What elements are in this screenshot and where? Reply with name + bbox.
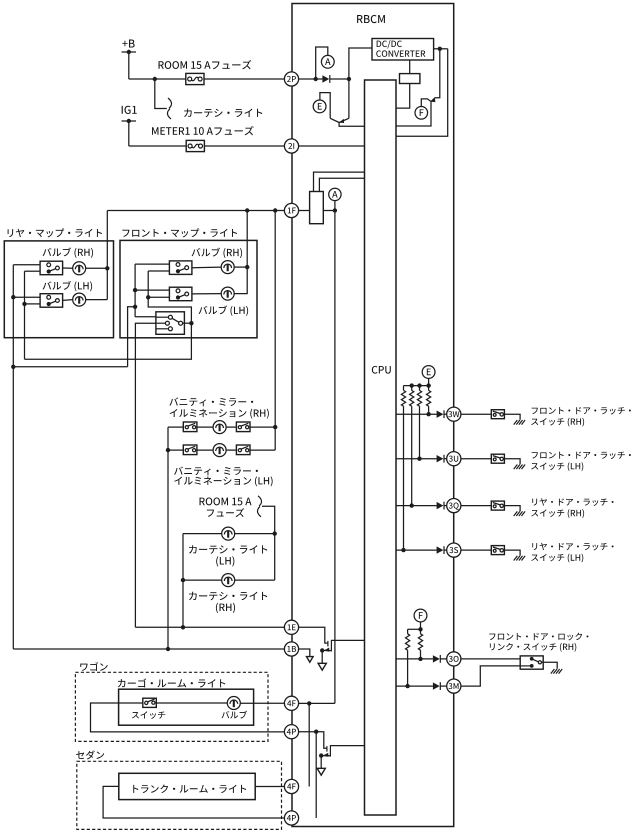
resistor R2 vertical <box>310 192 324 224</box>
door latch switch 3S <box>491 546 504 555</box>
bus E resistors <box>404 385 429 387</box>
net label F at CPU <box>414 609 427 622</box>
wire 3U to latch switch <box>461 458 491 460</box>
bulb courtesy LH <box>222 527 235 540</box>
label METER1 fuse <box>152 126 254 135</box>
bulb vanity LH <box>213 444 226 457</box>
wire bus to 3pos switch top <box>135 316 156 318</box>
bulb vanity RH <box>213 421 226 434</box>
diode D1 <box>322 75 329 82</box>
label courtesy RH <box>189 592 267 600</box>
label fuse 2 <box>207 508 244 517</box>
wire 1E row <box>135 626 284 628</box>
node IG1 <box>122 106 137 114</box>
wire down to rear map lamps <box>106 211 108 269</box>
bulb courtesy RH <box>222 574 235 587</box>
wire bulb to 4F <box>240 702 284 704</box>
MOSFET Q4 <box>326 746 328 752</box>
wire switch to ground 3W <box>504 414 520 420</box>
wire 3W to latch switch <box>461 413 491 415</box>
diode 3U <box>437 455 444 462</box>
resistor RE4 <box>428 386 430 391</box>
wire switch left to 4P <box>91 703 285 732</box>
resistor RF1 <box>407 629 409 634</box>
diode 3M <box>433 682 440 689</box>
label 3S line1 <box>532 543 613 551</box>
transistor Q1 emitter to CPU <box>339 123 364 127</box>
wire switch to ground 3U <box>504 459 520 465</box>
wire 2I to CPU <box>299 145 365 147</box>
ground 3S <box>514 556 518 561</box>
bulb front RH <box>221 261 234 274</box>
label bulb LH front <box>199 305 249 315</box>
ground 3U <box>514 465 518 470</box>
wire courtesy LH row <box>183 533 222 535</box>
label courtesy light <box>184 109 262 117</box>
connector 3M <box>447 679 461 693</box>
wire IG1 down <box>128 121 130 146</box>
wire bus to LH switch <box>13 296 40 298</box>
3pos right terminal <box>183 322 192 324</box>
label ROOM 15A fuse <box>159 60 252 69</box>
wire switch to bulb <box>192 266 221 269</box>
wire courtesy RH row <box>183 579 222 581</box>
wire resistor R1 to CPU <box>396 84 410 109</box>
resistor RF2 <box>420 629 422 634</box>
resistor R1 under DC/DC <box>400 74 420 84</box>
label 3Q line2 <box>531 509 584 518</box>
wire switch to bulb <box>156 702 227 704</box>
vanity left bus down to 1B <box>167 427 169 649</box>
ground 1B <box>307 657 314 663</box>
bus left 2 down <box>24 271 26 359</box>
transistor Q2 collector wire <box>431 49 440 102</box>
wire switch to bulb LH <box>63 299 73 302</box>
wires to front RH switch <box>135 263 169 265</box>
wire switch to ground 3S <box>504 550 520 556</box>
wire bulb LH right <box>86 299 108 301</box>
wire IG1 to fuse <box>129 145 186 147</box>
wire 3M to lock switch <box>461 666 520 686</box>
net label A at 1F <box>334 201 336 211</box>
RBCM module box <box>292 4 454 827</box>
switch rear LH <box>40 294 63 308</box>
label bulb <box>222 711 247 719</box>
label courtesy LH2 <box>216 556 234 566</box>
wire vanity LH row <box>168 449 183 451</box>
bulb rear RH <box>73 262 86 275</box>
connector 3Q <box>447 499 461 513</box>
switch front RH <box>169 261 192 275</box>
wire Q3 source <box>322 649 331 651</box>
wire 1E to MOSFET gate <box>299 627 328 643</box>
wire junction down to transistor collector <box>348 79 350 118</box>
connector 2I <box>284 139 298 153</box>
wire down to vanity mirror <box>274 211 276 428</box>
cargo room light box <box>119 689 254 725</box>
wire diode to junction <box>330 78 349 80</box>
wire resistor to CPU upper <box>314 172 365 191</box>
label trunk room light <box>133 785 246 793</box>
connector 3O <box>447 652 461 666</box>
diode 3W <box>437 411 444 418</box>
label vanity LH 2 <box>174 476 272 486</box>
wire 1B row <box>13 648 284 650</box>
net label E at CPU <box>422 366 435 379</box>
door latch switch 3U <box>491 454 504 463</box>
label courtesy RH2 <box>216 603 235 613</box>
right leg down to LH bulb <box>234 267 247 294</box>
resistor RE3 <box>419 386 421 391</box>
wire 3O to lock switch <box>461 658 520 660</box>
wire CPU to 3M <box>396 685 433 687</box>
wires to front LH switch <box>135 289 169 291</box>
wire down to sedan 4F <box>308 703 310 786</box>
label bulb RH front <box>192 248 242 258</box>
wire DC/DC down to resistor <box>409 60 411 74</box>
connector 1B <box>284 642 298 656</box>
label 3U line1 <box>532 452 631 459</box>
trunk room light box <box>119 773 255 799</box>
wire vanity RH row <box>168 426 183 428</box>
connector 4F sedan <box>284 779 298 793</box>
wire bus to RH switch <box>13 264 40 266</box>
connector 3S <box>447 543 461 557</box>
label vanity LH 1 <box>174 467 258 476</box>
wire 1F left with taps <box>107 210 298 212</box>
door lock link switch <box>520 656 543 669</box>
wire right leg down <box>106 268 108 299</box>
wire bulb right <box>234 266 247 268</box>
wire CPU to 3Q <box>396 505 437 507</box>
wire 2P into module <box>299 78 323 80</box>
wire 3Q to latch switch <box>461 505 491 507</box>
label door lock 2 <box>490 643 576 652</box>
label 3U line2 <box>531 462 583 471</box>
connector 3U <box>447 452 461 466</box>
wire down to front map lamps <box>246 211 248 268</box>
switch front LH <box>169 287 192 301</box>
wire vanity right leg <box>274 427 276 450</box>
CPU box <box>365 80 397 815</box>
wire 1F row <box>299 210 335 212</box>
wire +B to fuse <box>129 78 186 80</box>
jog wire to left bus <box>13 366 127 368</box>
wire 1B to ground <box>299 649 310 657</box>
label vanity RH 2 <box>170 409 269 419</box>
transistor Q2 emitter to CPU <box>396 102 431 126</box>
wire Q4 drain to CPU <box>330 745 364 747</box>
wire switch to ground 3Q <box>504 506 520 512</box>
wire trunk to 4F <box>255 786 284 788</box>
connector 1E <box>284 620 298 634</box>
bus front upper <box>134 264 136 317</box>
wire fuse to 2P <box>204 78 285 80</box>
wire A bus to 4F <box>299 702 335 704</box>
resistor RE2 <box>411 386 413 391</box>
diode 3Q <box>437 502 444 509</box>
wire fuse to 2I <box>205 145 285 147</box>
cargo switch <box>143 698 157 707</box>
wire switch to bulb RH <box>63 267 73 269</box>
3-position switch <box>156 312 185 335</box>
bus F resistors <box>408 628 421 630</box>
bus front lower <box>148 271 191 323</box>
ground lock switch <box>551 669 555 674</box>
connector 4F wagon <box>284 696 298 710</box>
wire junction up to DC/DC converter <box>349 48 372 79</box>
label front map light <box>122 228 237 237</box>
label wagon <box>80 662 107 671</box>
net label A loop <box>316 47 328 79</box>
label rear map light <box>8 228 102 237</box>
wire branch to courtesy light <box>155 79 167 109</box>
net label E loop <box>320 93 330 119</box>
wire resistor to CPU lower <box>319 178 364 191</box>
wire Q4 source <box>321 755 330 757</box>
bulb rear LH <box>73 293 86 306</box>
label bulb LH <box>43 281 93 291</box>
left leg courtesy <box>182 534 184 628</box>
wire 4P row to MOSFET gate <box>299 732 327 749</box>
label 3Q line1 <box>532 498 613 506</box>
wire fuse to courtesy bulbs <box>262 506 275 580</box>
label sedan <box>76 750 104 759</box>
wire bulb RH right <box>86 267 108 269</box>
wire Q3 drain to CPU <box>331 639 364 641</box>
net label F <box>421 99 431 107</box>
wire trunk to 4P <box>103 786 284 818</box>
wire mid terminal to 1E bus <box>135 323 156 627</box>
cargo bulb <box>227 697 240 710</box>
transistor Q1 <box>330 118 339 122</box>
ground 3Q <box>514 511 518 516</box>
MOSFET Q3 <box>327 641 329 647</box>
door latch switch 3Q <box>491 501 504 510</box>
wire CPU to 3W <box>396 413 437 415</box>
switch rear RH <box>40 261 63 275</box>
resistor RE1 <box>403 386 405 391</box>
connector 3W <box>447 407 461 421</box>
wire lock switch to ground <box>542 662 558 669</box>
connector 2P <box>284 72 298 86</box>
wire 3S to latch switch <box>461 549 491 551</box>
label 3W line2 <box>531 418 584 427</box>
wire CPU to 3S <box>396 549 437 551</box>
label cargo room light <box>118 678 225 687</box>
bus A down to 4F <box>334 211 336 704</box>
connector 1F <box>284 203 298 217</box>
connector 4P sedan <box>284 811 298 825</box>
transistor Q2 arrow <box>431 98 436 102</box>
label vanity RH 1 <box>169 397 253 406</box>
label ROOM fuse 2 <box>200 497 252 505</box>
label courtesy LH <box>189 545 267 553</box>
diode 3O <box>433 655 440 662</box>
wire DC/DC right to bus <box>434 48 448 50</box>
wire switch to bulb LH <box>192 293 221 295</box>
connector break symbol courtesy <box>168 98 172 108</box>
connector break symbol ROOM fuse <box>258 496 262 506</box>
ground Q4 source <box>317 768 325 775</box>
jog from bus to outer leg <box>128 307 136 367</box>
label bulb RH <box>43 247 93 257</box>
fuse ROOM 15A <box>186 73 204 84</box>
node +B <box>122 40 134 48</box>
bulb front LH <box>221 287 234 300</box>
ground Q3 source <box>318 663 326 670</box>
wire down to sedan 4P <box>315 732 317 818</box>
label switch <box>132 711 165 719</box>
DC/DC converter box <box>372 39 434 61</box>
label door lock 1 <box>489 633 588 641</box>
3pos common down to rear bus <box>25 323 192 359</box>
ground 3W <box>514 420 518 425</box>
door latch switch 3W <box>491 410 504 419</box>
wire +B down <box>128 52 130 79</box>
wire CPU to 3U <box>396 458 437 460</box>
connector 4P wagon <box>284 725 298 739</box>
fuse METER1 10A <box>186 140 204 151</box>
label 3W line1 <box>532 407 631 414</box>
wire CPU to 3O <box>396 658 433 660</box>
bus left 1 down <box>12 265 14 649</box>
wire bus down to CPU <box>396 49 448 137</box>
diode 3S <box>437 546 444 553</box>
label 3S line2 <box>531 554 583 563</box>
